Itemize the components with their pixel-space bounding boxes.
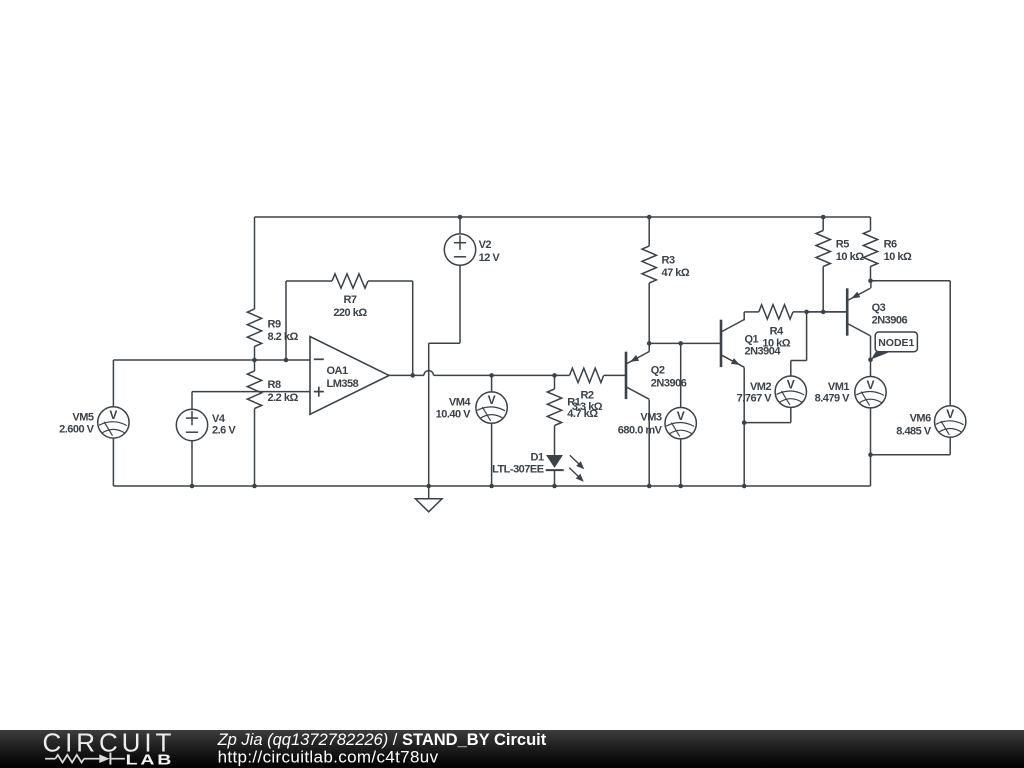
wire VM2 bottom lead [790,407,792,422]
svg-text:V: V [109,408,117,422]
transistor Q2 [626,352,687,400]
junction R8 ground [252,484,257,489]
svg-text:8.479 V: 8.479 V [815,393,851,405]
op-amp OA1 [310,337,389,415]
junction D1 ground [552,484,557,489]
ground [415,486,442,512]
wire VM4 bottom lead [491,423,493,486]
svg-text:D1: D1 [531,451,544,463]
svg-text:8.2 kΩ: 8.2 kΩ [268,331,299,343]
junction R3/Q2 emitter [647,341,652,346]
resistor R2 [555,368,627,413]
voltmeter VM1 [815,377,887,408]
svg-text:2.6 V: 2.6 V [212,425,236,437]
wire Q3 emitter to R6 [870,281,872,288]
svg-text:Q3: Q3 [872,302,886,314]
wire top supply rail [255,216,871,218]
svg-text:R2: R2 [580,389,593,401]
svg-text:Q2: Q2 [651,364,665,376]
node NODE1 flag [871,332,917,360]
wire VM1 bottom lead [870,408,872,486]
wire V4 to non-inverting input [191,392,193,410]
svg-text:10 kΩ: 10 kΩ [836,251,864,263]
resistor R4 [744,305,847,350]
junction NODE1 [868,358,873,363]
voltmeter VM3 [618,408,697,439]
svg-text:R3: R3 [662,254,675,266]
junction V2 top [458,215,463,220]
junction R5 bottom [821,310,826,315]
svg-text:LM358: LM358 [327,378,359,390]
wire feedback riser right [412,281,414,375]
wire V2 negative to ground [459,265,461,343]
svg-text:Zp Jia (qq1372782226) / STAND_: Zp Jia (qq1372782226) / STAND_BY Circuit [217,731,547,749]
svg-text:8.485 V: 8.485 V [896,426,932,438]
svg-text:47 kΩ: 47 kΩ [662,267,690,279]
wire Q3 base net [807,311,848,313]
svg-text:R4: R4 [770,325,784,337]
wire Q1 collector riser [743,312,745,320]
wire VM1 top lead [870,360,872,377]
svg-text:V: V [488,393,496,407]
transistor Q1 [721,320,781,368]
junction output feedback [410,373,415,378]
svg-text:2N3906: 2N3906 [651,377,687,389]
wire VM4 top lead [491,375,493,392]
junction R9/R8 inverting node [252,358,257,363]
svg-text:R6: R6 [884,238,897,250]
wire VM3 leads [680,343,682,407]
svg-text:2N3906: 2N3906 [872,314,908,326]
svg-text:220 kΩ: 220 kΩ [333,307,367,319]
svg-text:V4: V4 [212,413,226,425]
wire op-amp output net [389,374,424,376]
junction VM1/VM6 bottom [868,452,873,457]
junction VM4 top [489,373,494,378]
voltage source V2 [444,234,500,265]
junction VM3 top [678,341,683,346]
svg-text:12 V: 12 V [479,252,501,264]
svg-text:2.2 kΩ: 2.2 kΩ [268,392,299,404]
resistor R7 [286,274,413,319]
svg-text:http://circuitlab.com/c4t78uv: http://circuitlab.com/c4t78uv [218,748,439,767]
voltmeter VM5 [59,407,129,438]
voltmeter VM2 [737,376,807,407]
junction V4 ground [190,484,195,489]
voltage source V4 [176,409,236,440]
wire Q1 emitter lead [743,368,745,487]
svg-text:LAB: LAB [126,751,175,768]
svg-text:VM2: VM2 [750,381,772,393]
svg-text:NODE1: NODE1 [878,337,914,349]
svg-text:VM4: VM4 [449,397,472,409]
wire feedback riser left [285,281,287,360]
junction feedback tap [284,358,289,363]
voltmeter VM6 [896,406,966,438]
junction Q1 emitter/VM2 [742,420,747,425]
resistor R9 [247,217,298,360]
svg-text:V: V [677,409,685,423]
junction R3 top [647,215,652,220]
wire V2 top lead [459,217,461,234]
junction R5 top [821,215,826,220]
svg-text:VM3: VM3 [640,412,662,424]
svg-text:V: V [866,378,874,392]
svg-text:V: V [787,377,795,391]
wire Q3 collector to NODE1 [870,336,872,360]
svg-text:R8: R8 [268,379,281,391]
resistor R5 [816,217,864,312]
resistor R8 [247,360,298,486]
resistor R6 [863,217,912,281]
voltmeter VM4 [436,392,508,423]
svg-text:VM1: VM1 [828,381,850,393]
svg-text:4.7 kΩ: 4.7 kΩ [567,408,598,420]
LED D1 [492,451,584,486]
resistor R1 [547,375,598,455]
svg-text:680.0 mV: 680.0 mV [618,424,663,436]
wire bottom rail [113,485,870,487]
junction Q2 ground [647,484,652,489]
junction R4/VM2 [804,310,809,315]
svg-text:OA1: OA1 [327,365,349,377]
wire VM6 top lead [871,280,951,282]
svg-text:V: V [946,407,954,421]
junction R6 bottom [868,279,873,284]
wire Q2 collector lead [648,400,650,486]
svg-text:2.600 V: 2.600 V [59,423,95,435]
wire VM2 tap [806,312,808,361]
wire VM6 bottom lead [949,437,951,455]
logo resistor-diode line [45,753,125,765]
svg-text:R9: R9 [268,319,281,331]
svg-text:7.767 V: 7.767 V [737,393,773,405]
junction VM3 ground [678,484,683,489]
transistor Q3 [847,288,907,336]
svg-text:10.40 V: 10.40 V [436,408,472,420]
junction ground node [426,484,431,489]
svg-text:LTL-307EE: LTL-307EE [492,463,544,475]
svg-text:R7: R7 [343,294,356,306]
svg-text:V2: V2 [479,239,492,251]
junction VM4 ground [489,484,494,489]
wire Q2 emitter net [649,342,721,344]
junction R1 top [552,373,557,378]
resistor R3 [642,217,690,343]
wire VM5 to inverting input [112,360,114,407]
svg-text:VM5: VM5 [72,411,94,423]
svg-text:R1: R1 [567,397,580,409]
svg-text:10 kΩ: 10 kΩ [884,251,912,263]
svg-text:2N3904: 2N3904 [745,345,782,357]
svg-text:Q1: Q1 [745,334,759,346]
svg-text:VM6: VM6 [910,413,932,425]
svg-text:R5: R5 [836,238,849,250]
junction Q1 ground [742,484,747,489]
